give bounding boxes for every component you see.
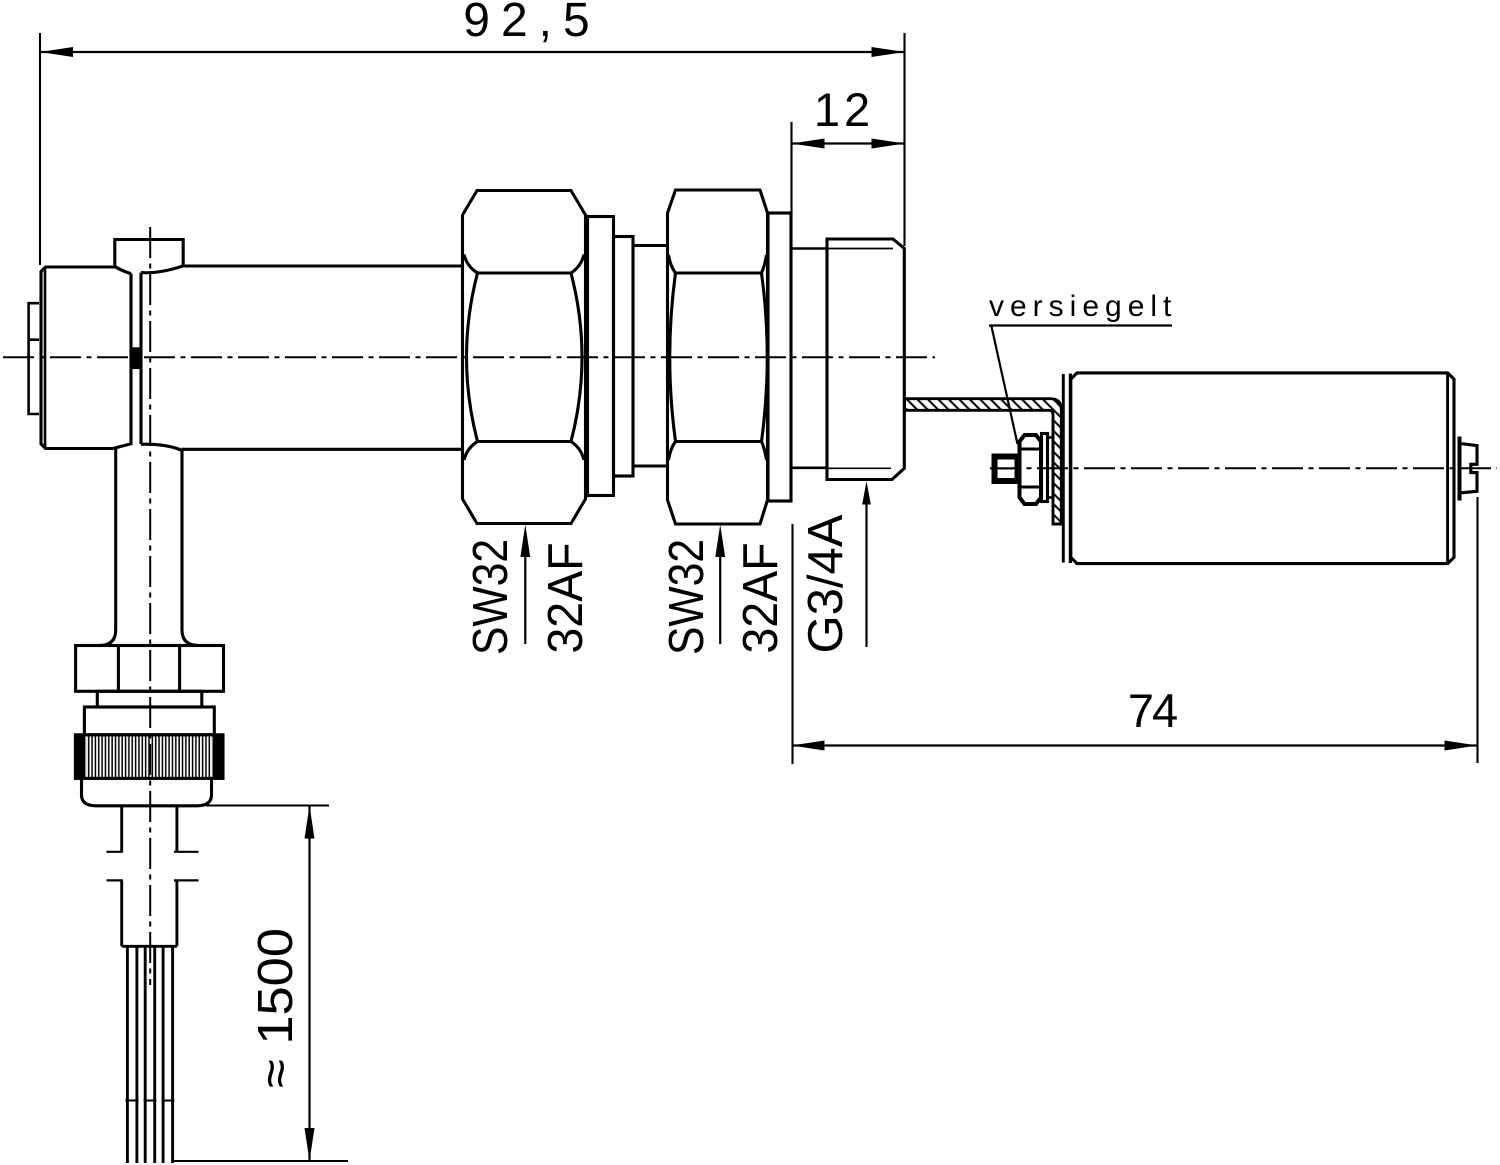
seal bolt — [995, 457, 1018, 482]
left sensor end small box — [29, 303, 39, 414]
cable gland hex nut — [76, 646, 224, 692]
dimension 92,5 line — [40, 51, 905, 53]
dimension 92,5 left arrowhead — [40, 47, 73, 57]
dimension 74 left arrowhead — [792, 741, 825, 751]
label arrow nut 2 — [719, 555, 721, 644]
thread root line top (thin) — [827, 248, 893, 250]
gland dome — [82, 778, 212, 805]
stem left edge — [99, 449, 116, 646]
svg-text:versiegelt: versiegelt — [989, 290, 1177, 323]
spacer tube top edge — [633, 244, 668, 247]
seal hex nut outline — [1020, 435, 1042, 504]
left end cap outline — [41, 267, 115, 449]
knurled ring outline — [75, 735, 223, 779]
dimension 92,5 right arrowhead — [872, 47, 905, 57]
wire end ticks — [126, 1100, 175, 1102]
hex nut 2 (SW32) outline — [668, 190, 768, 524]
float lever arm (hatched) — [905, 399, 1062, 524]
cable lower section left edge — [120, 880, 123, 946]
svg-text:32AF: 32AF — [539, 542, 593, 653]
vertical centerline of clamp stem — [149, 227, 151, 985]
neck bottom edge — [791, 466, 827, 469]
float pivot stub body with notch — [1462, 444, 1478, 493]
thread G3/4A outline — [827, 239, 904, 480]
knurled ring left end block — [75, 735, 85, 779]
hex nut 1 (SW32) outline — [463, 191, 586, 524]
ring behind washer — [614, 237, 634, 477]
svg-text:92,5: 92,5 — [463, 0, 600, 47]
knurled ring knurl lines — [86, 736, 213, 777]
cable gland hex facet lines — [118, 646, 179, 692]
dimension 92,5 extension line left — [39, 33, 41, 265]
dimension 12 left arrowhead — [792, 139, 825, 149]
clamp bracket right fillet — [141, 266, 183, 273]
hex nut 1 bottom face corner arcs — [464, 442, 584, 461]
neck top edge — [791, 247, 827, 250]
hex nut 2 bottom face corner arcs — [669, 442, 767, 461]
float left face line outer — [1062, 374, 1065, 563]
float body outline — [1071, 373, 1454, 564]
label arrow G3/4A — [865, 502, 867, 647]
dimension 74 line — [792, 744, 1478, 746]
cable lower section right edge — [175, 880, 178, 946]
left sensor end box divider — [29, 338, 39, 341]
hex nut 1 middle face left arc — [467, 273, 478, 442]
seal hex nut facet lines — [1020, 449, 1042, 487]
dimension 12 extension line left (shared with 74) — [790, 122, 792, 216]
float centerline — [990, 467, 1497, 469]
tube top edge — [183, 264, 463, 267]
cable upper section left edge — [120, 806, 123, 852]
tube left edge (slot right) — [141, 273, 182, 451]
clamp bracket left fillet — [115, 267, 131, 274]
hex nut 1 facet line upper — [478, 271, 572, 274]
cable break lower ticks — [107, 879, 199, 881]
main horizontal centerline — [3, 356, 935, 358]
dimension 12 line — [792, 142, 905, 144]
float pivot stub base bar — [1458, 437, 1462, 501]
seal washer A — [1042, 434, 1048, 502]
clamp pin — [132, 347, 141, 369]
label arrow nut 1 — [524, 555, 526, 644]
dimension 12 right arrowhead — [872, 139, 905, 149]
hex nut 1 facet line lower — [478, 440, 572, 443]
cap right edge (slot left) — [114, 274, 131, 449]
hex nut 2 top face corner arcs — [669, 255, 767, 273]
cable gland neck ring — [97, 691, 202, 707]
svg-text:12: 12 — [814, 83, 874, 136]
hex nut 2 facet line upper — [676, 271, 762, 274]
cable break upper ticks — [107, 851, 199, 853]
svg-text:SW32: SW32 — [658, 539, 713, 655]
hex nut 2 facet line lower — [676, 440, 762, 443]
dimension 1500 bottom extension line — [174, 1160, 348, 1162]
dimension 92,5 / 12 shared extension line right — [903, 33, 905, 246]
knurled ring right end block — [213, 735, 223, 779]
left end cap inner double line — [44, 268, 47, 449]
float left face line inner — [1069, 374, 1072, 564]
svg-text:G3/4A: G3/4A — [799, 514, 853, 653]
svg-text:74: 74 — [1128, 684, 1177, 737]
label versiegelt underline — [989, 324, 1172, 326]
dimension 1500 down arrowhead — [305, 1128, 315, 1161]
hex nut 2 middle face right arc — [762, 273, 768, 442]
wire 2 — [145, 946, 155, 1163]
washer behind nut 2 — [768, 213, 791, 501]
dimension 74 right arrowhead — [1445, 741, 1478, 751]
svg-text:SW32: SW32 — [462, 539, 517, 655]
hex nut 1 middle face right arc — [571, 273, 582, 442]
tube bottom edge — [182, 448, 464, 451]
hex nut 2 middle face left arc — [670, 273, 676, 442]
thread root line bottom (thin) — [827, 467, 891, 469]
label versiegelt leader line — [992, 327, 1018, 445]
svg-text:≈ 1500: ≈ 1500 — [248, 928, 303, 1088]
washer behind nut 1 — [588, 217, 614, 496]
seal bolt centerline dash — [998, 468, 1013, 470]
cable upper section right edge — [175, 806, 178, 852]
wire 3 — [163, 946, 173, 1163]
svg-text:32AF: 32AF — [734, 542, 788, 653]
dimension 1500 top extension line — [206, 804, 329, 806]
clamp bracket top — [115, 240, 183, 267]
hex nut 1 top face corner arcs — [464, 255, 584, 274]
seal washer B — [1048, 438, 1054, 498]
dimension 1500 up arrowhead — [305, 806, 315, 839]
dimension 74 extension line right — [1476, 497, 1478, 763]
dimension 1500 line — [308, 806, 310, 1162]
cable end edge — [122, 945, 177, 948]
float right inner face line — [1446, 374, 1449, 564]
cable gland body ring — [84, 707, 214, 735]
stem right edge — [182, 450, 199, 645]
wire 1 — [127, 946, 136, 1163]
spacer tube bottom edge — [633, 464, 668, 467]
